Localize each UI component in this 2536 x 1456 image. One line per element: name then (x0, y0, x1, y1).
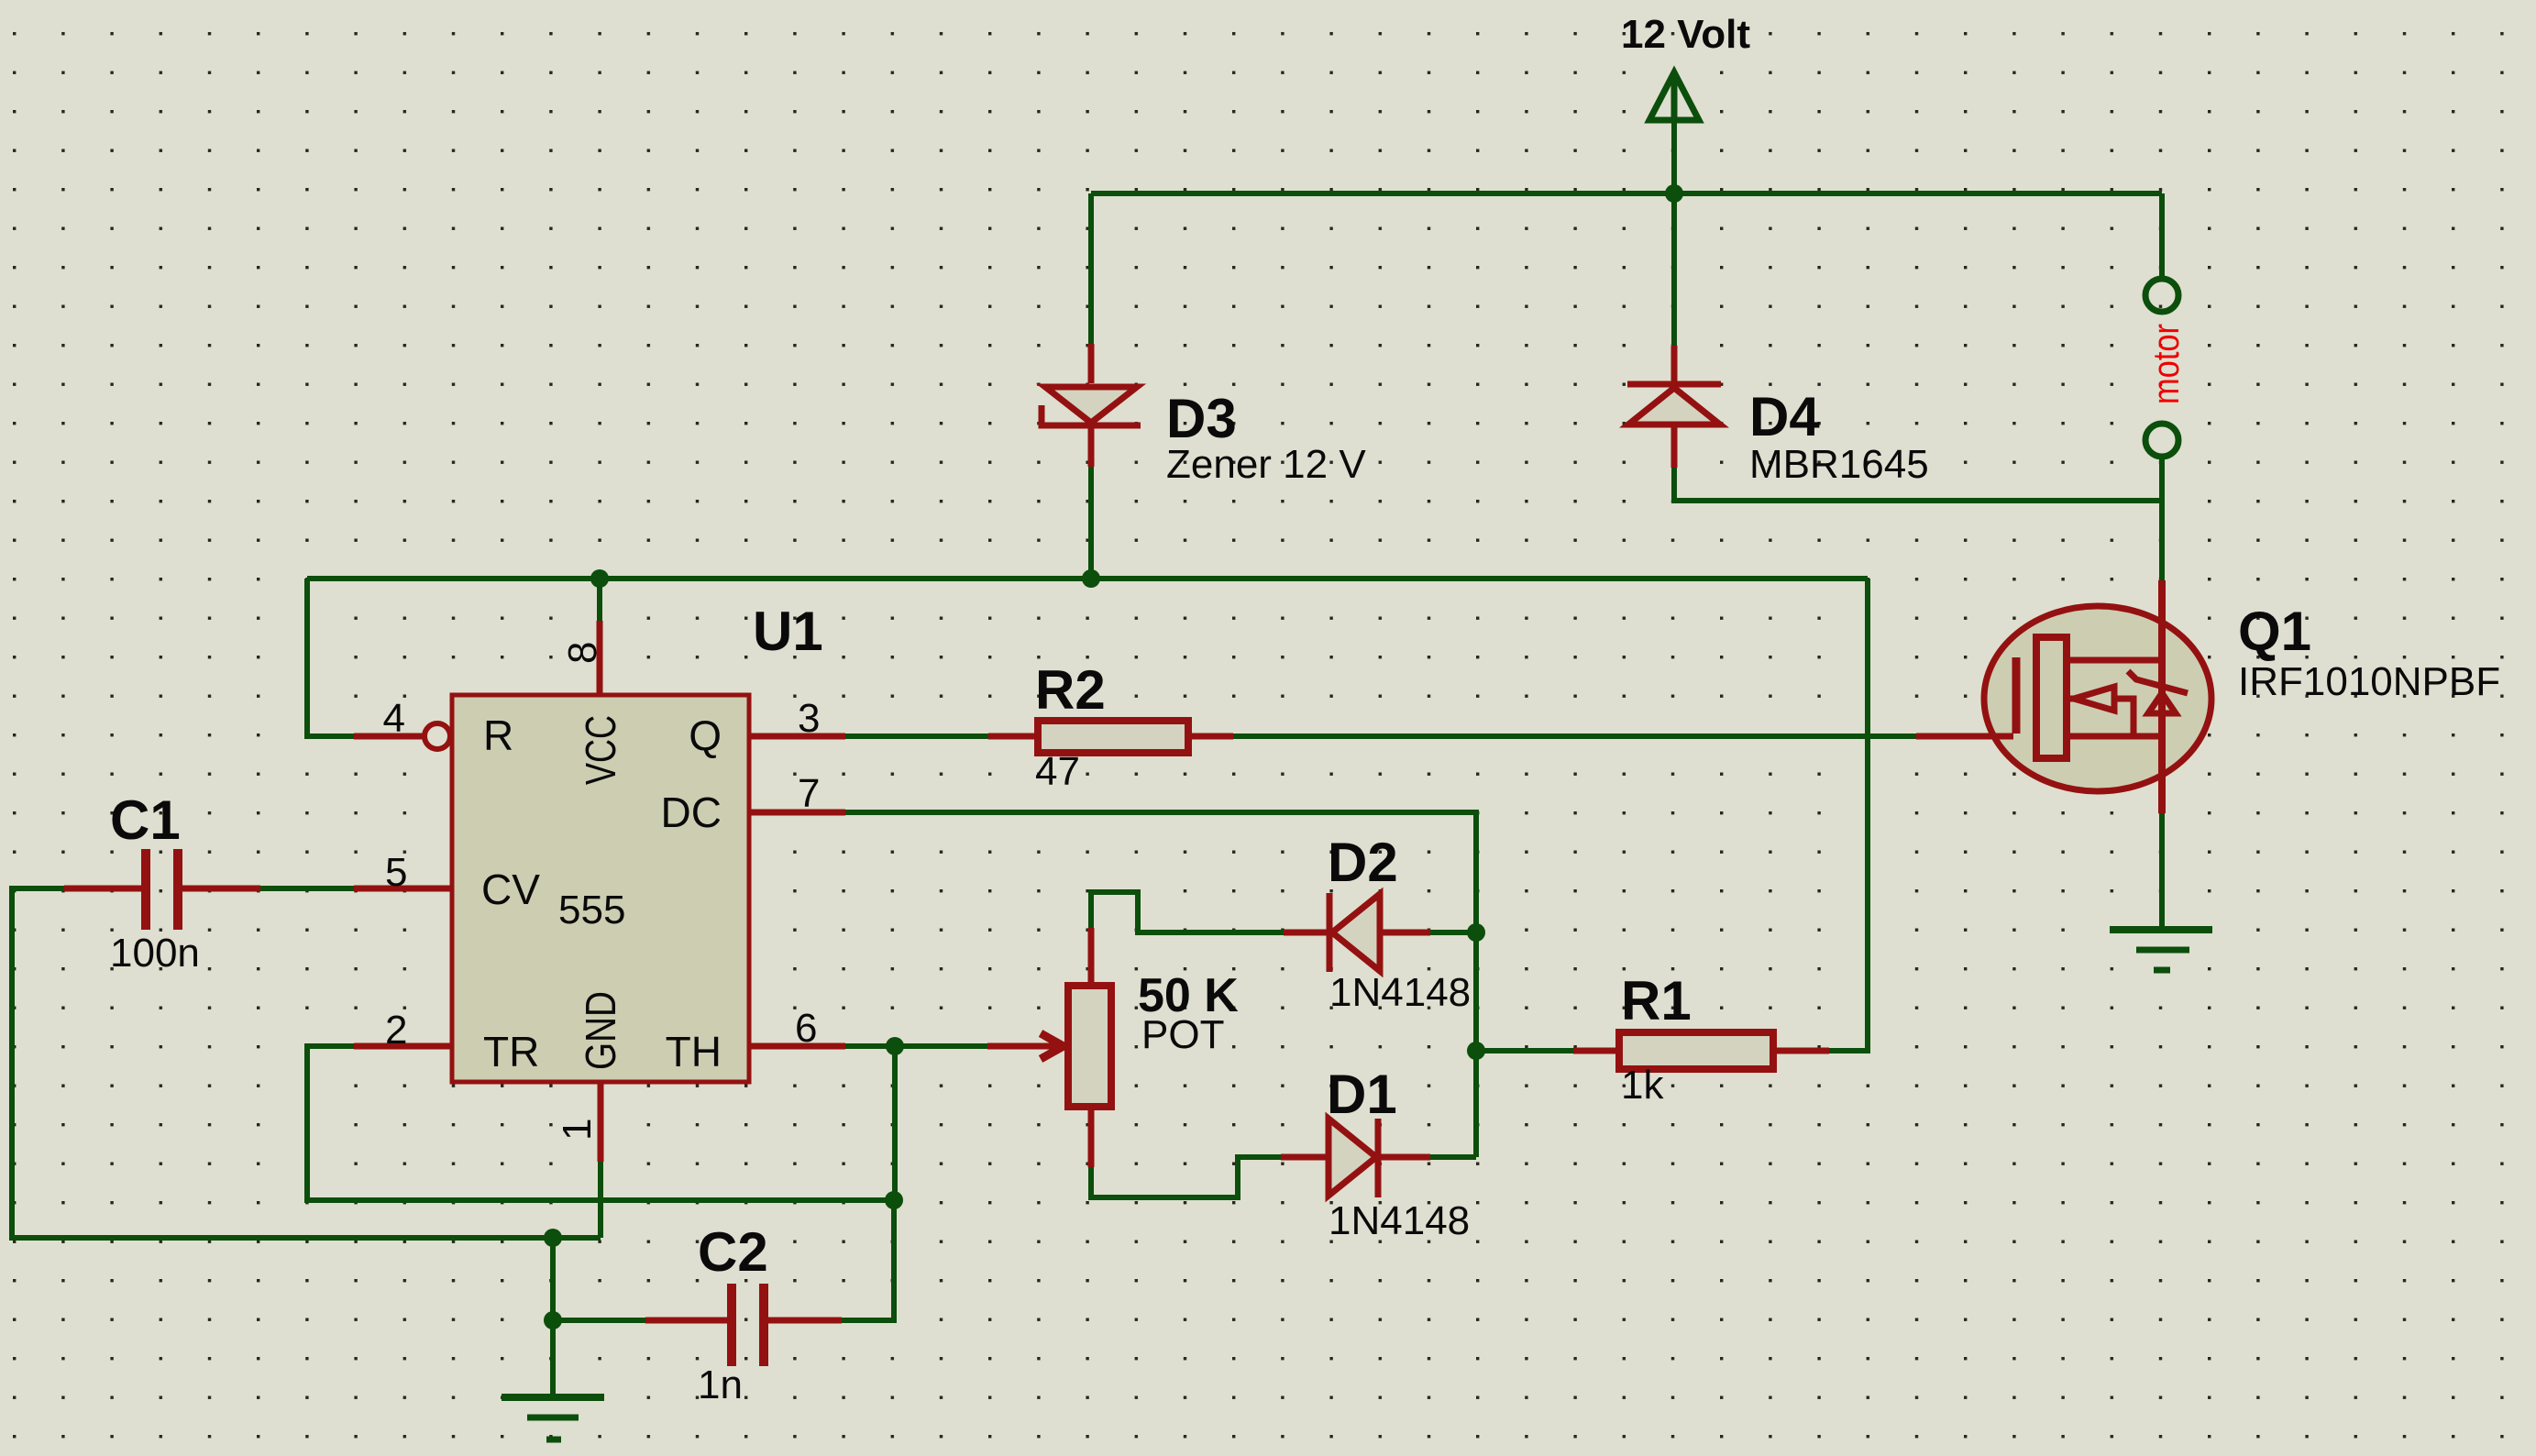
wire 12V stem (1671, 77, 1677, 193)
svg-text:Zener 12 V: Zener 12 V (1166, 442, 1366, 487)
svg-text:D2: D2 (1328, 832, 1398, 893)
svg-text:TR: TR (483, 1028, 539, 1075)
wire pin1 drop (598, 1162, 603, 1238)
svg-text:12 Volt: 12 Volt (1621, 12, 1750, 57)
wire Q to R2 (845, 734, 988, 739)
wire gnd branch (550, 1238, 556, 1395)
capacitor C2 (645, 1284, 842, 1366)
wire D3 bottom (1088, 467, 1094, 579)
svg-text:6: 6 (795, 1006, 817, 1051)
svg-text:POT: POT (1141, 1012, 1224, 1057)
svg-text:3: 3 (798, 696, 820, 741)
pin 5 lead (354, 886, 452, 892)
svg-text:8: 8 (560, 642, 605, 664)
svg-text:1N4148: 1N4148 (1329, 1198, 1470, 1243)
wire POT bottom jog to D1 (1091, 1157, 1281, 1197)
resistor R1 (1573, 1032, 1829, 1069)
wire TH junction run (845, 1043, 987, 1049)
wire R2 to gate (1233, 734, 1916, 739)
wire motor top drop (2159, 193, 2165, 279)
wire D2 left to staple (1091, 892, 1284, 932)
svg-text:D1: D1 (1327, 1064, 1397, 1125)
svg-text:47: 47 (1035, 749, 1080, 794)
svg-text:D4: D4 (1749, 386, 1820, 447)
wire D3 top (1088, 193, 1094, 344)
capacitor C1 (64, 849, 260, 930)
555 IC body U1 (452, 695, 749, 1082)
wire drain top (2159, 501, 2165, 580)
svg-text:MBR1645: MBR1645 (1749, 442, 1929, 487)
diode D2 1N4148 (1284, 893, 1430, 972)
power symbol 12 Volt arrow (1649, 72, 1699, 120)
svg-text:Q1: Q1 (2238, 601, 2311, 662)
motor terminal bottom (2145, 424, 2178, 457)
potentiometer 50K POT (987, 928, 1111, 1167)
wire D4 bottom to motor (1674, 468, 2162, 501)
mosfet Q1 IRF1010NPBF (1916, 580, 2211, 813)
svg-text:555: 555 (558, 888, 625, 932)
diode D1 1N4148 (1281, 1119, 1430, 1197)
node D3-rail junction (1082, 569, 1100, 588)
resistor R2 (988, 721, 1233, 753)
wire CV to C1 (260, 886, 354, 891)
motor terminal top (2145, 279, 2178, 312)
pin 1 lead (598, 1082, 604, 1162)
wire R1 left (1476, 1048, 1573, 1053)
svg-text:R1: R1 (1621, 970, 1692, 1031)
node TR-C2 rail junction (885, 1191, 903, 1209)
node C1-GND junction (544, 1229, 562, 1247)
svg-text:1: 1 (555, 1119, 600, 1141)
svg-text:7: 7 (798, 771, 820, 816)
node R1 junction (1467, 1042, 1485, 1060)
pin 4 reset bubble and lead (425, 723, 450, 749)
svg-text:Q: Q (689, 711, 722, 759)
ground under Q1 (2110, 930, 2212, 970)
pin 3 lead (749, 734, 845, 740)
pin 2 lead (354, 1043, 452, 1050)
pin 7 lead (749, 810, 845, 816)
wire POT top (1088, 892, 1094, 928)
svg-text:motor: motor (2146, 324, 2187, 404)
wire 12V top rail (1091, 191, 2162, 196)
svg-text:C1: C1 (110, 789, 181, 851)
svg-text:IRF1010NPBF: IRF1010NPBF (2238, 659, 2500, 704)
wire pin8 stub (597, 579, 602, 621)
svg-text:R2: R2 (1035, 659, 1106, 721)
ground bottom left (502, 1397, 604, 1439)
wire rail right drop to R1 (1829, 579, 1868, 1051)
svg-text:100n: 100n (110, 931, 200, 976)
svg-text:4: 4 (383, 696, 405, 741)
wire motor bottom stub (2159, 457, 2165, 501)
wire D1 right lead to riser (1430, 1154, 1476, 1160)
node 12V junction (1665, 184, 1683, 203)
wire DC run (845, 812, 1476, 1157)
wire C1 left (12, 888, 601, 1238)
svg-text:R: R (483, 711, 513, 759)
svg-text:U1: U1 (753, 601, 823, 662)
wire TR run (307, 1046, 894, 1200)
wire rail left drop to pin4 (307, 579, 354, 736)
svg-text:CV: CV (481, 866, 540, 913)
wire D2 right to junction (1430, 930, 1476, 935)
svg-text:D3: D3 (1166, 388, 1237, 449)
pin 8 lead (597, 621, 603, 695)
wire TH drop (892, 1046, 898, 1200)
svg-text:GND: GND (577, 991, 624, 1070)
wire C2 left lead (553, 1318, 645, 1323)
wire C2 right lead (842, 1200, 894, 1320)
diode D4 MBR1645 (1627, 346, 1721, 468)
svg-text:VCC: VCC (577, 715, 624, 785)
node D2 junction (1467, 923, 1485, 942)
node VCC-pin8 junction (590, 569, 609, 588)
node C2-GND junction (544, 1311, 562, 1329)
zener diode D3 (1042, 344, 1141, 467)
wire VCC rail (307, 576, 1868, 581)
svg-text:1N4148: 1N4148 (1329, 970, 1471, 1015)
svg-text:1k: 1k (1621, 1063, 1664, 1108)
wire D4 top (1671, 193, 1677, 346)
svg-text:C2: C2 (698, 1221, 768, 1283)
svg-text:2: 2 (385, 1008, 407, 1053)
node TH junction (886, 1037, 904, 1055)
svg-text:TH: TH (666, 1028, 722, 1075)
wire source to ground (2159, 813, 2165, 930)
svg-text:5: 5 (385, 850, 407, 895)
svg-text:1n: 1n (698, 1362, 743, 1407)
pin 6 lead (749, 1043, 845, 1050)
svg-text:DC: DC (661, 789, 722, 836)
